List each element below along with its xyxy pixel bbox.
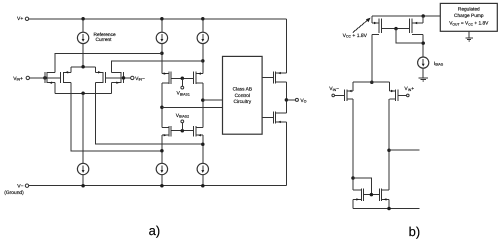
wire V+ rail to reference current source [82, 19, 84, 33]
wire M8 drain down to M10 [388, 99, 390, 190]
wire VIN+ b to M8 gate [398, 94, 406, 96]
transistor M10 mirror bottom right [379, 188, 389, 201]
node junction dot top rail x83 [81, 17, 85, 21]
current source I5 bottom mid [156, 163, 167, 174]
wire M9 source down [352, 199, 354, 208]
node VIN+ terminal b [407, 94, 410, 97]
transistor M7 diff left [344, 90, 353, 102]
transistor M6 mirror right PMOS [410, 19, 424, 35]
node junction dot output [285, 98, 289, 102]
node junction dot column B y60.9 [201, 59, 205, 63]
wire b tail horizontal [353, 81, 390, 83]
svg-text:VO: VO [300, 98, 306, 104]
node junction dot column A y150.8 [160, 149, 164, 153]
wire input tail [71, 66, 96, 68]
wire input bottom node [55, 92, 112, 94]
wire V+ rail to I2 [161, 19, 163, 33]
current source reference current [77, 32, 88, 43]
node junction dot tail [81, 65, 85, 69]
wire M5 source up to top supply [371, 16, 373, 23]
wire top rail V+ [29, 18, 287, 20]
wire I5 to bottom rail [161, 175, 163, 186]
wire class AB box to output NMOS gate [262, 117, 274, 119]
wire M7 drain down to M9 [352, 99, 354, 190]
wire VIN- b to M7 gate [335, 94, 345, 96]
wire reference current source to input tail [82, 43, 84, 66]
wire b top supply [372, 15, 441, 17]
wire tail down to M8 source [389, 82, 391, 91]
wire column B VBIAS1 to VBIAS2 [202, 83, 204, 128]
wire I6 to bottom rail [202, 175, 204, 186]
transistor Q8 VBIAS2 right [194, 126, 203, 136]
node junction dot VBIAS1 gates [181, 77, 185, 81]
node junction dot column B y100.1 [201, 98, 205, 102]
node junction dot b bottom x389 [387, 207, 391, 211]
wire column B VBIAS2 to bottom current source [202, 135, 204, 163]
svg-text:(Ground): (Ground) [4, 190, 24, 196]
wire I4 to bottom rail [82, 175, 84, 186]
ground charge pump [465, 38, 473, 41]
svg-text:VIN+: VIN+ [404, 86, 414, 92]
transistor M1 input [45, 72, 55, 83]
wire column A VBIAS2 to bottom current source [161, 135, 163, 163]
wire M6 drain down [422, 34, 424, 57]
wire output PMOS drain to output node [285, 82, 287, 113]
wire M4 source down to bottom node wire [110, 83, 112, 94]
wire VBIAS2 gates [171, 130, 194, 132]
current source I4 bottom left [77, 163, 88, 174]
node junction dot M4 gate [122, 76, 126, 80]
svg-text:b): b) [409, 224, 421, 239]
current source I6 bottom right [197, 163, 208, 174]
wire M3 drain up to tail [94, 67, 96, 73]
node junction dot column A y53.3 [160, 52, 164, 56]
node junction dot bottom mirror gates [370, 193, 374, 197]
wire right vertical from top rail to output PMOS [285, 19, 287, 73]
svg-text:Current: Current [96, 37, 113, 43]
svg-text:Charge Pump: Charge Pump [454, 13, 484, 19]
node VIN- terminal b [332, 94, 335, 97]
svg-text:VIN−: VIN− [329, 86, 339, 92]
svg-text:VBIAS1: VBIAS1 [177, 91, 190, 97]
svg-text:VBIAS2: VBIAS2 [176, 113, 189, 119]
wire mirror diode connection [353, 178, 371, 195]
node junction dot top rail x162 [160, 17, 164, 21]
wire M2 drain down to column A lower [71, 83, 162, 151]
transistor Q6 VBIAS1 right [194, 72, 203, 85]
svg-text:VCC + 1.8V: VCC + 1.8V [343, 33, 368, 39]
wire bottom node down to bottom current source [82, 93, 84, 163]
node junction dot b top x423 [421, 14, 425, 18]
transistor M8 diff right [390, 90, 399, 102]
wire M2 drain up to tail [70, 67, 72, 73]
wire column A VBIAS1 to VBIAS2 [161, 83, 163, 128]
transistor Q7 VBIAS2 left [162, 126, 171, 136]
wire VIN+ to input gates [30, 77, 61, 79]
node junction dot M1 gate [43, 76, 47, 80]
svg-text:VOUT = VCC + 1.8V: VOUT = VCC + 1.8V [449, 21, 489, 27]
wire right vertical from bottom rail to output NMOS [285, 122, 287, 186]
wire charge pump box to ground [468, 31, 470, 38]
transistor M2 input [61, 72, 71, 83]
current source I3 top [197, 32, 208, 43]
wire bottom rail V- [29, 185, 287, 187]
node VBIAS2 terminal [181, 120, 184, 123]
wire VBIAS2 gate to terminal [181, 123, 183, 131]
wire b bottom rail [353, 208, 420, 210]
wire mirror gate feedback to M6 drain [396, 29, 423, 43]
transistor Q9 output PMOS [274, 71, 287, 83]
wire M6 source up to top supply [422, 16, 424, 23]
wire M4 drain up and over to column B [111, 61, 202, 72]
box class AB control circuitry [223, 56, 263, 134]
node junction dot bottom node [81, 92, 85, 96]
node junction dot M6 drain y43 [421, 41, 425, 45]
node junction dot b output y150 [387, 148, 391, 152]
transistor M5 mirror left PMOS [372, 19, 382, 35]
wire M5 M6 gates [382, 28, 410, 30]
transistor M4 input [111, 72, 123, 83]
svg-text:IBIAS: IBIAS [434, 61, 444, 67]
svg-text:Control: Control [235, 93, 250, 99]
node junction dot mirror gates [394, 27, 398, 31]
wire VBIAS1 gates [171, 77, 194, 79]
node junction dot bottom rail x162 [160, 184, 164, 188]
wire class AB box to output PMOS gate [262, 77, 274, 79]
wire M1 source down to bottom node wire [54, 83, 56, 94]
node junction dot bottom rail x203 [201, 184, 205, 188]
svg-text:Class AB: Class AB [233, 87, 252, 93]
node junction dot column A y107.3 [160, 106, 164, 110]
wire column A to class AB box lower input [162, 106, 223, 108]
node V+ terminal [25, 17, 28, 20]
node VIN+ terminal [26, 76, 29, 79]
box regulated charge pump [440, 3, 497, 31]
node V- terminal [25, 184, 28, 187]
transistor M3 input [95, 72, 105, 83]
wire V+ rail to I3 [202, 19, 204, 33]
node VBIAS1 terminal [181, 86, 184, 89]
node junction dot b tail [370, 80, 374, 84]
svg-text:V+: V+ [17, 16, 23, 22]
wire M1 drain up and over to column A [55, 53, 162, 72]
svg-text:VIN+: VIN+ [13, 76, 23, 82]
wire column A from I2 down to VBIAS1 left transistor [161, 43, 163, 73]
wire IBIAS to ground [422, 68, 424, 78]
svg-text:VIN−: VIN− [135, 76, 145, 82]
current source I2 top [156, 32, 167, 43]
transistor M9 mirror bottom left [353, 188, 363, 201]
node junction dot VBIAS2 gates [181, 129, 185, 133]
wire M3 drain down to column B lower [95, 83, 202, 145]
wire output node to VO terminal [286, 99, 295, 101]
transistor Q5 VBIAS1 left [162, 72, 171, 85]
node VO terminal [295, 98, 298, 101]
wire M9 M10 gates [363, 194, 379, 196]
wire M5 drain down to diff pair tail [371, 34, 373, 82]
ground IBIAS [419, 78, 428, 81]
svg-text:a): a) [149, 223, 161, 238]
node junction dot M7 drain y178 [351, 176, 355, 180]
wire M10 source down [388, 199, 390, 208]
wire VBIAS1 gate to terminal [181, 78, 183, 86]
wire M3 gates to VIN- terminal [106, 77, 131, 79]
annotation arrow VCC [353, 20, 368, 33]
wire tail down to M7 source [352, 82, 354, 91]
svg-text:V−: V− [17, 183, 23, 189]
node junction dot column B y144.2 [201, 142, 205, 146]
node VIN- terminal [131, 76, 134, 79]
wire column B from I3 down to VBIAS1 right transistor [202, 43, 204, 73]
wire b output [389, 149, 420, 151]
svg-text:Circuitry: Circuitry [234, 99, 252, 105]
node junction dot bottom rail x83 [81, 184, 85, 188]
svg-text:Regulated: Regulated [458, 7, 480, 13]
node junction dot top rail x203 [201, 17, 205, 21]
transistor Q10 output NMOS [274, 111, 287, 123]
wire column B to class AB box upper input [203, 99, 223, 101]
current source IBIAS [418, 57, 429, 68]
